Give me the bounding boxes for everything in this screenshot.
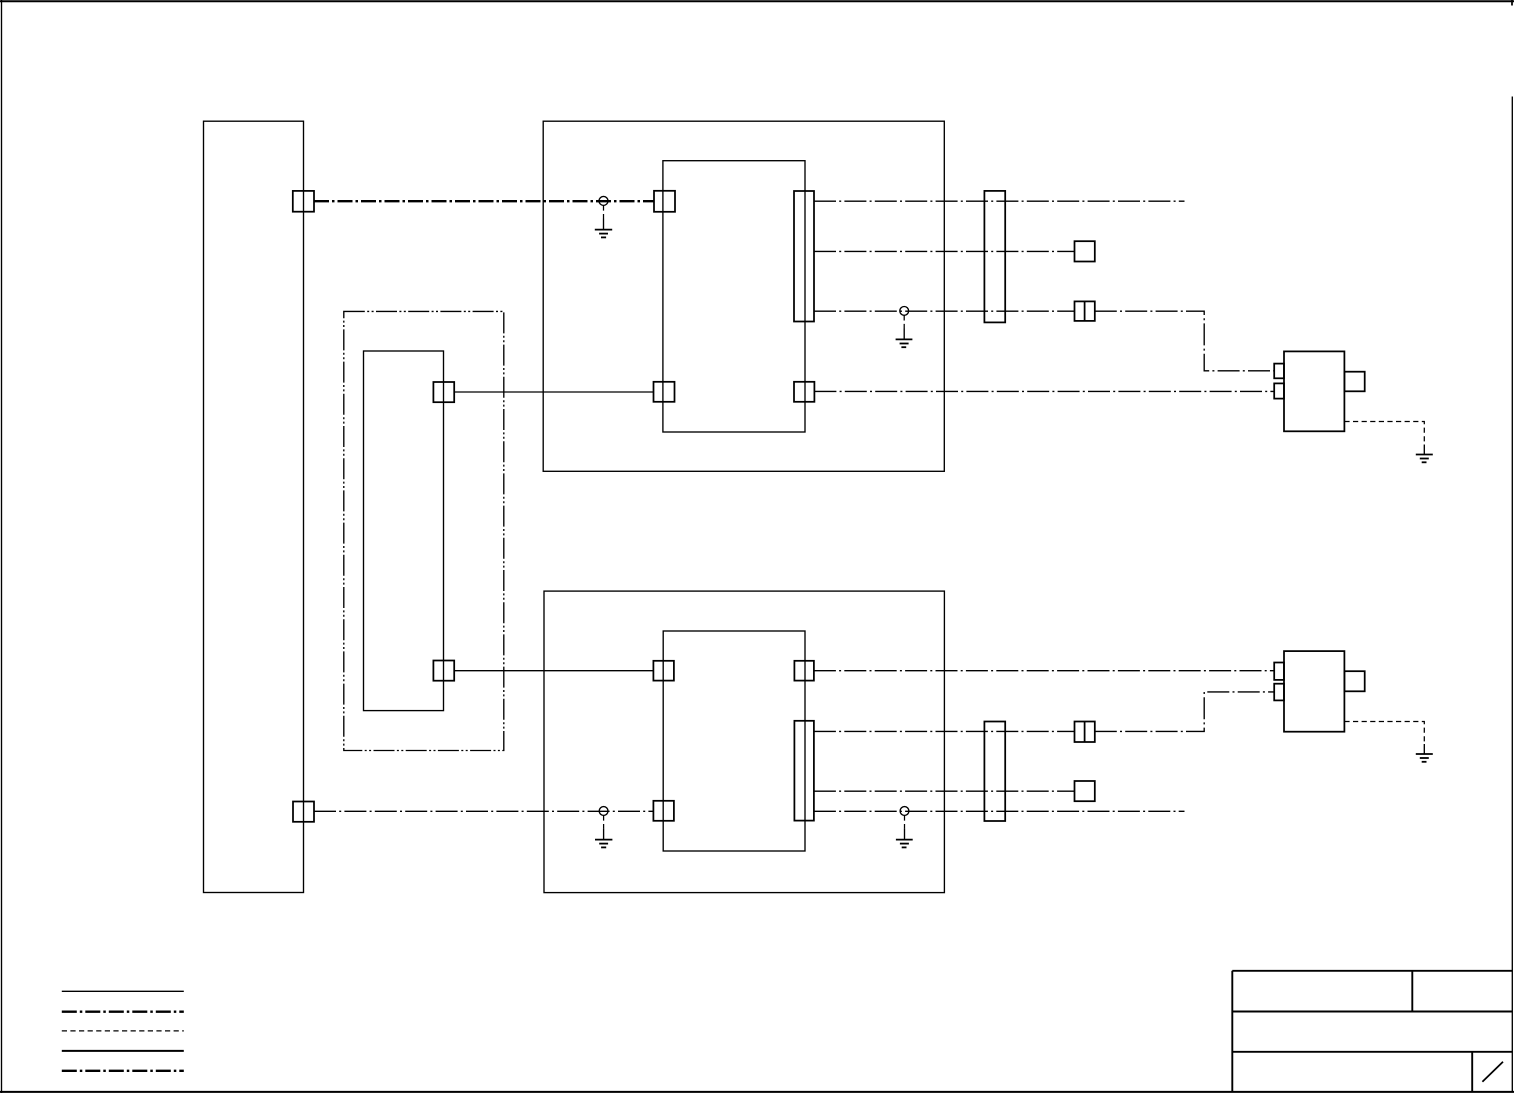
inline connector X23 (lower single) bbox=[1075, 781, 1095, 801]
wire W6a chain U2-J1 to X22 bbox=[814, 730, 1075, 732]
connector A1-X1 bbox=[293, 191, 314, 212]
lower enclosure box bbox=[544, 591, 944, 893]
inline connector pair X22 divider bbox=[1084, 722, 1086, 743]
splice node S1 bbox=[599, 196, 608, 205]
wire W5a solid A2-X2 to U2-P1 bbox=[454, 670, 653, 672]
bulkhead connector strip X10 (upper) bbox=[984, 191, 1005, 323]
connector A1-X2 bbox=[293, 802, 314, 822]
inline connector pair X21 divider bbox=[1084, 301, 1086, 321]
ground lead S3 (dashed drop) bbox=[603, 815, 605, 828]
title block top line bbox=[1232, 970, 1512, 972]
title block divider bbox=[1411, 971, 1413, 1012]
bulkhead connector strip X11 (lower) bbox=[984, 722, 1005, 822]
phantom enclosure (shielded group) bbox=[344, 311, 504, 750]
legend line dashed bbox=[62, 1030, 184, 1032]
legend line solid thick bbox=[62, 1050, 184, 1052]
title block lower line bbox=[1232, 1051, 1512, 1053]
pin header strip U1-J1 bbox=[794, 191, 814, 322]
ground G1 bbox=[595, 230, 612, 238]
wire W4a solid A2-X1 to U1-P2 bbox=[454, 391, 653, 393]
legend line solid thin bbox=[62, 990, 184, 992]
pin connector U2-P2 (left bottom) bbox=[653, 801, 674, 821]
wire W5b chain U2-P3 to M2 tab1 bbox=[814, 670, 1274, 672]
frame border top bbox=[0, 0, 1514, 2]
M2 right tab bbox=[1344, 671, 1364, 691]
title block slash cell edge bbox=[1471, 1052, 1473, 1092]
ground G1 stem bbox=[603, 219, 605, 230]
splice node S4 bbox=[900, 807, 909, 816]
ground lead S1 (dashed drop) bbox=[603, 205, 605, 218]
ground G6 stem bbox=[1423, 744, 1425, 754]
ground G4 stem bbox=[904, 829, 906, 840]
wire W4b chain U1-P3 to M1 tab2 bbox=[814, 390, 1274, 392]
inline connector pair X21 (upper double) bbox=[1075, 301, 1095, 321]
ground G4 bbox=[896, 840, 913, 848]
wire W2 chain U1-J1 to X20 bbox=[814, 250, 1075, 252]
connector A2-X2 bbox=[433, 661, 454, 681]
title block mid line bbox=[1232, 1011, 1512, 1013]
wire W7 chain U2-J1 to X23 bbox=[814, 790, 1075, 792]
ground G3 stem bbox=[603, 829, 605, 840]
sensor M2 (lower right) bbox=[1284, 651, 1344, 732]
ground lead M2 (dashed) bbox=[1344, 722, 1424, 745]
ground lead S4 (dashed drop) bbox=[904, 815, 906, 828]
frame border bottom bbox=[0, 1091, 1514, 1093]
M2 pin tab 2 bbox=[1274, 684, 1284, 701]
wire W1 thick chain A1-X1 to U1-P1 bbox=[314, 200, 654, 202]
ground lead S2 (dashed drop) bbox=[903, 315, 905, 328]
module A2 (inner unit) bbox=[364, 351, 444, 711]
ground G5 stem bbox=[1423, 445, 1425, 455]
title block left edge bbox=[1231, 971, 1233, 1092]
pin header strip U2-J1 bbox=[794, 721, 814, 821]
legend line chain thick 1 bbox=[62, 1011, 184, 1013]
M2 pin tab 1 bbox=[1274, 663, 1284, 680]
wire W8a chain A1-X2 to U2-P2 bbox=[314, 810, 653, 812]
pin connector U1-P3 (right bottom) bbox=[794, 382, 814, 402]
sensor M1 (upper right) bbox=[1284, 351, 1344, 431]
ground lead M1 (dashed) bbox=[1344, 422, 1424, 445]
wire W6b chain X22 to M2 tab2 (with jog) bbox=[1095, 692, 1274, 732]
pin connector U2-P3 (right top) bbox=[794, 661, 814, 681]
wire W3a chain U1-J1 to X21 bbox=[814, 310, 1075, 312]
pin connector U2-P1 (left top) bbox=[653, 661, 674, 681]
wire W1b chain U1-J1 to end bbox=[814, 200, 1185, 202]
frame border right bbox=[1511, 97, 1513, 1093]
splice node S3 bbox=[599, 807, 608, 816]
M1 right tab bbox=[1344, 372, 1364, 392]
connector A2-X1 bbox=[433, 382, 454, 402]
upper enclosure box bbox=[543, 121, 944, 471]
lower control unit U2 bbox=[663, 631, 805, 851]
ground G3 bbox=[595, 840, 612, 848]
ground G5 bbox=[1416, 455, 1433, 463]
legend line chain thick 2 bbox=[62, 1070, 184, 1072]
frame border left bbox=[1, 0, 3, 1093]
splice node S2 bbox=[900, 307, 909, 316]
wire W3b chain X21 to M1 tab1 (with jog) bbox=[1095, 311, 1274, 371]
M1 pin tab 2 bbox=[1274, 383, 1284, 398]
ground G2 stem bbox=[903, 329, 905, 340]
module A1 (left control unit) bbox=[204, 121, 304, 892]
upper control unit U1 bbox=[663, 161, 805, 432]
inline connector pair X22 (lower double) bbox=[1075, 722, 1095, 743]
M1 pin tab 1 bbox=[1274, 364, 1284, 379]
title block slash mark bbox=[1482, 1062, 1503, 1082]
inline connector X20 (upper single) bbox=[1075, 241, 1095, 261]
ground G6 bbox=[1416, 754, 1433, 762]
frame border right tick (top) bbox=[1511, 0, 1513, 6]
ground G2 bbox=[896, 339, 913, 347]
pin connector U1-P1 (left top) bbox=[654, 191, 675, 212]
wire W8b chain U2-J1 to end bbox=[814, 810, 1185, 812]
pin connector U1-P2 (left bottom) bbox=[654, 382, 675, 402]
